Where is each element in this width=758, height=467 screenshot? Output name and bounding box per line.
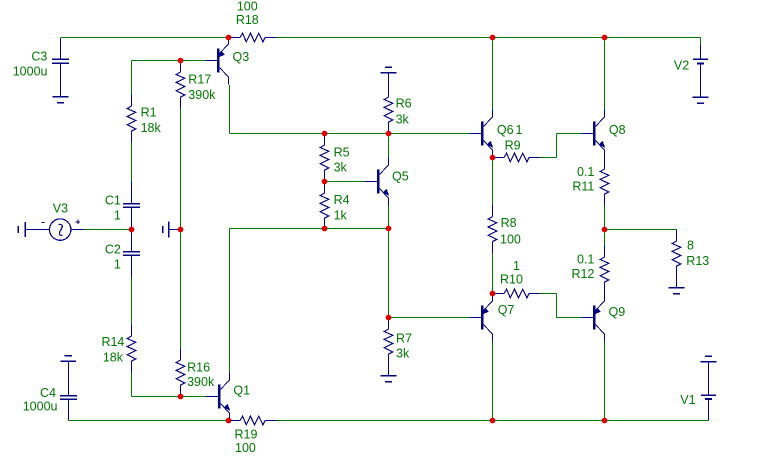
wire xyxy=(582,317,594,319)
value 1 xyxy=(114,208,121,222)
svg-text:R4: R4 xyxy=(334,193,350,207)
svg-text:Q5: Q5 xyxy=(392,170,409,184)
svg-text:18k: 18k xyxy=(103,350,124,364)
resistor R14 xyxy=(127,325,136,373)
svg-text:1: 1 xyxy=(516,123,523,137)
resistor R4 xyxy=(320,182,329,230)
wire xyxy=(277,37,701,39)
transistor Q5 xyxy=(377,158,389,206)
wire xyxy=(604,38,606,110)
wire xyxy=(71,229,132,231)
svg-text:R5: R5 xyxy=(334,145,350,159)
transistor Q8 xyxy=(593,110,605,158)
resistor R5 xyxy=(320,134,329,182)
label Q3 xyxy=(233,50,250,64)
wire xyxy=(229,85,231,134)
label V1 xyxy=(680,393,695,407)
svg-text:V1: V1 xyxy=(680,393,695,407)
wire xyxy=(389,317,470,319)
svg-text:Q7: Q7 xyxy=(498,303,515,317)
svg-text:8: 8 xyxy=(687,238,694,252)
wire xyxy=(132,396,207,398)
resistor R1 xyxy=(127,95,136,143)
wire xyxy=(69,420,229,422)
label R9 xyxy=(505,138,521,152)
transistor Q3 xyxy=(217,37,229,85)
ground xyxy=(381,67,397,86)
svg-text:R11: R11 xyxy=(572,180,594,194)
label R1 xyxy=(141,106,157,120)
capacitor C3 xyxy=(52,38,69,97)
resistor R6 xyxy=(384,86,393,134)
label R6 xyxy=(396,97,412,111)
transistor Q9 xyxy=(593,294,605,342)
svg-text:100: 100 xyxy=(235,441,256,455)
label R10 xyxy=(500,272,523,286)
wire xyxy=(388,134,390,158)
svg-text:1k: 1k xyxy=(334,208,348,222)
wire xyxy=(132,60,181,62)
value 8 xyxy=(687,238,694,252)
label Q5 xyxy=(392,170,409,184)
resistor R10 xyxy=(493,289,541,298)
svg-text:3k: 3k xyxy=(334,161,348,175)
wire xyxy=(180,109,182,349)
transistor Q6 xyxy=(481,110,493,158)
svg-text:R7: R7 xyxy=(396,332,412,346)
svg-text:1000u: 1000u xyxy=(23,400,58,414)
label C2 xyxy=(105,243,121,257)
svg-text:1: 1 xyxy=(513,259,520,273)
svg-text:R16: R16 xyxy=(187,360,210,374)
resistor R12 xyxy=(600,246,609,294)
value 1 xyxy=(513,259,520,273)
node xyxy=(322,226,328,232)
svg-text:3k: 3k xyxy=(396,113,410,127)
svg-text:R6: R6 xyxy=(396,97,412,111)
source V3 xyxy=(25,219,85,240)
value 3k xyxy=(334,161,348,175)
label Q9 xyxy=(609,305,626,319)
wire xyxy=(230,228,389,230)
svg-text:R18: R18 xyxy=(236,13,259,27)
wire xyxy=(556,134,558,158)
node xyxy=(490,35,496,41)
value 1000u xyxy=(23,400,58,414)
resistor R17 xyxy=(176,61,185,109)
wire xyxy=(582,133,594,135)
svg-text:Q3: Q3 xyxy=(233,50,250,64)
wire xyxy=(470,317,482,319)
wire xyxy=(492,342,494,421)
label R5 xyxy=(334,145,350,159)
svg-text:100: 100 xyxy=(500,233,521,247)
value 1000u xyxy=(13,65,48,79)
transistor Q7 xyxy=(481,294,493,342)
resistor R11 xyxy=(600,158,609,206)
resistor R18 xyxy=(229,33,277,42)
ground xyxy=(61,356,77,362)
resistor R9 xyxy=(493,153,541,162)
label R16 xyxy=(187,360,210,374)
node xyxy=(602,227,608,233)
value 1 xyxy=(114,258,121,272)
wire xyxy=(131,278,133,325)
value 3k xyxy=(396,347,410,361)
value 100 xyxy=(237,0,258,14)
wire xyxy=(131,61,133,95)
node xyxy=(386,131,392,137)
wire xyxy=(388,229,390,318)
node xyxy=(386,315,392,321)
wire xyxy=(61,37,229,39)
node xyxy=(490,155,496,161)
label Q1 xyxy=(233,383,250,397)
ground xyxy=(18,222,25,237)
resistor R8 xyxy=(488,205,497,253)
label R17 xyxy=(188,73,211,87)
wire xyxy=(365,181,377,183)
label R7 xyxy=(396,332,412,346)
svg-text:R10: R10 xyxy=(500,272,523,286)
capacitor C2 xyxy=(123,230,140,278)
label C1 xyxy=(105,193,121,207)
node xyxy=(129,227,135,233)
wire xyxy=(604,342,606,421)
svg-text:R14: R14 xyxy=(101,335,124,349)
wire xyxy=(470,133,482,135)
label R8 xyxy=(501,216,517,230)
svg-text:C1: C1 xyxy=(105,193,121,207)
label R13 xyxy=(686,254,709,268)
capacitor C4 xyxy=(60,361,77,420)
resistor R7 xyxy=(384,318,393,366)
wire xyxy=(325,181,366,183)
value 3k xyxy=(396,113,410,127)
wire xyxy=(388,206,390,229)
capacitor C1 xyxy=(123,182,140,230)
node xyxy=(178,58,184,64)
wire xyxy=(230,133,470,135)
value 18k xyxy=(141,121,162,135)
svg-text:V3: V3 xyxy=(53,202,68,216)
node xyxy=(226,418,232,424)
node xyxy=(178,394,184,400)
svg-text:1000u: 1000u xyxy=(13,65,48,79)
svg-text:100: 100 xyxy=(237,0,258,14)
wire xyxy=(131,373,133,397)
wire xyxy=(557,133,582,135)
wire xyxy=(541,157,557,159)
svg-text:390k: 390k xyxy=(187,375,215,389)
label R18 xyxy=(236,13,259,27)
svg-text:R1: R1 xyxy=(141,106,157,120)
value 1k xyxy=(334,208,348,222)
node xyxy=(490,291,496,297)
svg-text:C3: C3 xyxy=(31,49,47,63)
value 100 xyxy=(500,233,521,247)
svg-text:390k: 390k xyxy=(188,88,216,102)
wire xyxy=(181,60,206,62)
label C4 xyxy=(40,386,56,400)
resistor R19 xyxy=(229,416,277,425)
svg-text:V2: V2 xyxy=(674,58,689,72)
svg-text:R19: R19 xyxy=(235,427,258,441)
wire xyxy=(604,206,606,246)
value 1 xyxy=(516,123,523,137)
resistor R16 xyxy=(176,349,185,397)
label Q8 xyxy=(609,123,626,137)
svg-text:18k: 18k xyxy=(141,121,162,135)
wire xyxy=(131,143,133,182)
svg-text:R17: R17 xyxy=(188,73,211,87)
node xyxy=(386,226,392,232)
svg-text:C2: C2 xyxy=(105,243,121,257)
svg-text:C4: C4 xyxy=(40,386,56,400)
wire xyxy=(556,294,558,318)
node xyxy=(322,131,328,137)
svg-text:0.1: 0.1 xyxy=(577,253,594,267)
svg-text:R13: R13 xyxy=(686,254,709,268)
svg-text:0.1: 0.1 xyxy=(577,165,594,179)
label C3 xyxy=(31,49,47,63)
label R12 xyxy=(571,267,594,281)
value 390k xyxy=(187,375,215,389)
wire xyxy=(605,229,677,231)
node xyxy=(178,227,184,233)
wire xyxy=(206,396,218,398)
svg-text:R8: R8 xyxy=(501,216,517,230)
ground xyxy=(693,97,709,103)
value 390k xyxy=(188,88,216,102)
svg-text:Q1: Q1 xyxy=(233,383,250,397)
label V3 xyxy=(53,202,68,216)
value 18k xyxy=(103,350,124,364)
label Q6 xyxy=(497,123,514,137)
wire xyxy=(492,158,494,206)
label V2 xyxy=(674,58,689,72)
wire xyxy=(700,38,702,46)
wire xyxy=(676,230,678,234)
svg-text:1: 1 xyxy=(114,258,121,272)
wire xyxy=(206,60,218,62)
wire xyxy=(541,293,557,295)
node xyxy=(490,418,496,424)
label R11 xyxy=(572,180,594,194)
svg-text:3k: 3k xyxy=(396,347,410,361)
svg-text:Q8: Q8 xyxy=(609,123,626,137)
value 0.1 xyxy=(577,253,594,267)
svg-text:R9: R9 xyxy=(505,138,521,152)
node xyxy=(602,418,608,424)
resistor R13 xyxy=(672,230,681,278)
ground xyxy=(53,97,69,103)
svg-text:1: 1 xyxy=(114,208,121,222)
label R19 xyxy=(235,427,258,441)
svg-text:R12: R12 xyxy=(571,267,594,281)
ground xyxy=(381,366,397,382)
node xyxy=(226,35,232,41)
transistor Q1 xyxy=(218,373,230,421)
wire xyxy=(229,229,231,373)
svg-text:Q9: Q9 xyxy=(609,305,626,319)
ground xyxy=(701,356,717,361)
label R14 xyxy=(101,335,124,349)
label R4 xyxy=(334,193,350,207)
node xyxy=(322,179,328,185)
wire xyxy=(492,253,494,294)
value 0.1 xyxy=(577,165,594,179)
battery V2 xyxy=(693,45,708,97)
ground xyxy=(669,278,685,294)
wire xyxy=(277,420,709,422)
ground xyxy=(163,222,181,238)
svg-text:Q6: Q6 xyxy=(497,123,514,137)
label Q7 xyxy=(498,303,515,317)
wire xyxy=(557,317,582,319)
node xyxy=(602,35,608,41)
wire xyxy=(492,38,494,110)
battery V1 xyxy=(701,362,716,421)
value 100 xyxy=(235,441,256,455)
